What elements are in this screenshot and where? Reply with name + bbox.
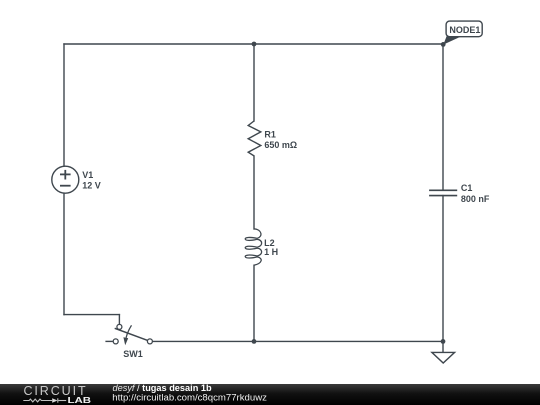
switch throw terminal left — [113, 339, 118, 344]
svg-text:NODE1: NODE1 — [449, 25, 480, 35]
wire middle lower — [253, 265, 255, 341]
svg-text:C1: C1 — [461, 183, 473, 193]
wire switch pole drop — [118, 315, 120, 325]
wire top-right segment — [254, 43, 443, 45]
resistor R1 — [248, 121, 297, 156]
capacitor C1 — [429, 183, 490, 204]
svg-text:650 mΩ: 650 mΩ — [264, 140, 297, 150]
wire right rail upper — [442, 44, 444, 190]
wire left rail upper — [63, 44, 65, 166]
voltage source V1 — [52, 166, 101, 193]
svg-text:http://circuitlab.com/c8qcm77r: http://circuitlab.com/c8qcm77rkduwz — [112, 393, 267, 404]
svg-text:12 V: 12 V — [82, 180, 101, 190]
svg-text:desyf / tugas desain 1b: desyf / tugas desain 1b — [113, 383, 212, 393]
wire middle upper — [253, 44, 255, 121]
footer bar — [0, 384, 540, 405]
svg-text:800 nF: 800 nF — [461, 194, 490, 204]
svg-text:V1: V1 — [82, 170, 93, 180]
wire bottom right segment — [254, 340, 443, 342]
svg-text:1 H: 1 H — [264, 247, 278, 257]
wire left rail lower — [63, 193, 65, 314]
switch pole terminal — [117, 324, 122, 329]
wire right rail lower — [442, 196, 444, 342]
switch actuator arrow — [126, 325, 131, 338]
switch throw terminal right — [147, 339, 152, 344]
svg-text:SW1: SW1 — [123, 349, 143, 359]
switch blade — [115, 328, 148, 340]
logo resistor squiggle and diode — [23, 398, 66, 402]
node junction dot top middle — [252, 42, 257, 47]
ground — [432, 341, 455, 363]
wire bottom left segment — [152, 340, 254, 342]
switch SW1 — [105, 324, 152, 359]
node junction dot bottom right — [441, 339, 446, 344]
svg-text:R1: R1 — [264, 130, 276, 140]
wire top-left segment — [64, 43, 254, 45]
inductor L2 — [245, 229, 278, 265]
node junction dot bottom middle — [252, 339, 257, 344]
CircuitLab logo — [23, 384, 91, 405]
node NODE1 flag — [441, 21, 482, 47]
switch unused stub — [105, 340, 113, 342]
wire middle between R1 and L2 — [253, 156, 255, 229]
wire left bottom horizontal — [64, 314, 119, 316]
svg-text:LAB: LAB — [68, 395, 92, 405]
